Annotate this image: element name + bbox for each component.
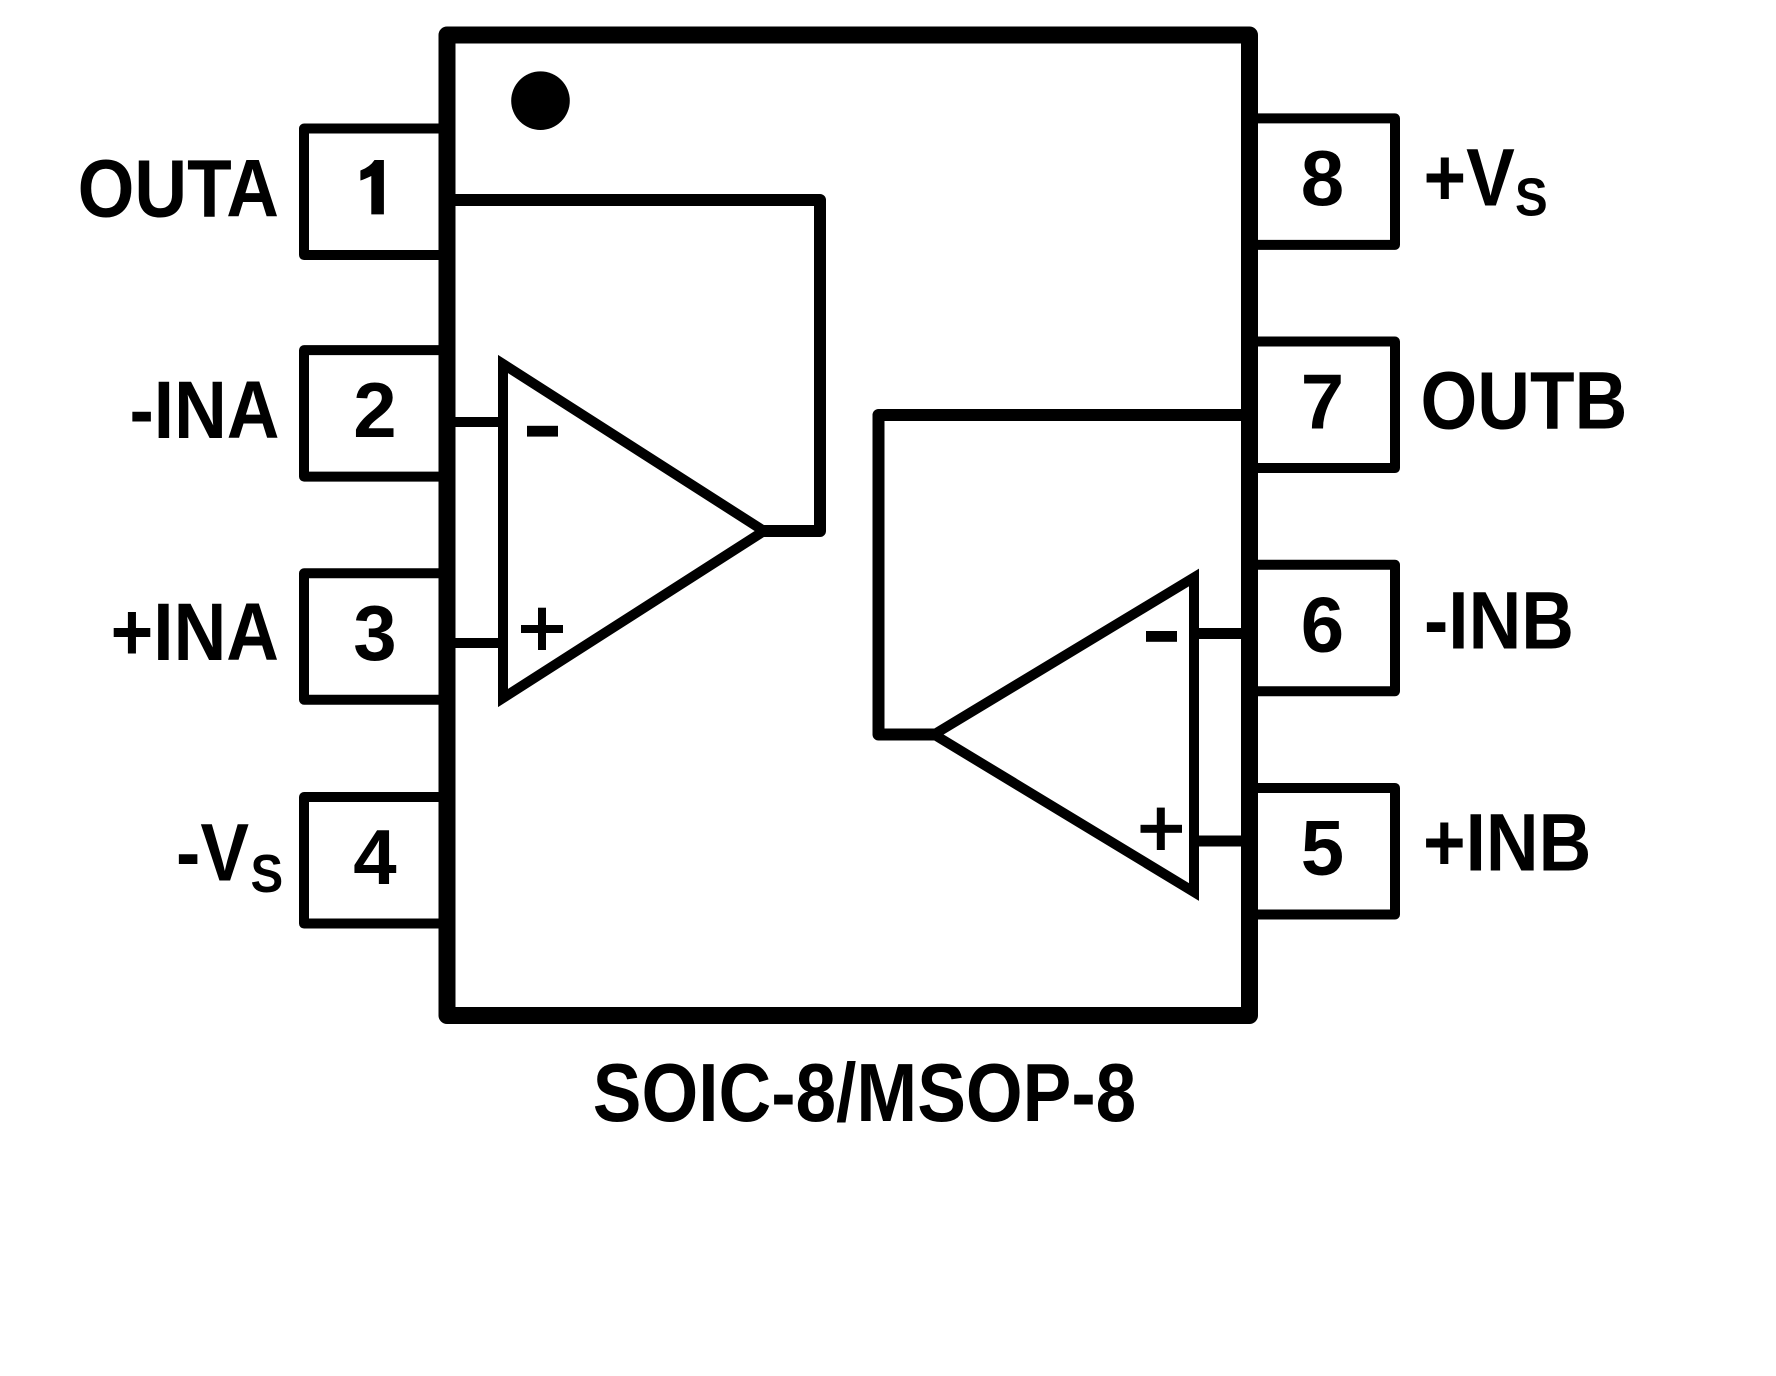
svg-text:-INB: -INB: [1424, 576, 1574, 667]
svg-text:2: 2: [353, 366, 396, 454]
svg-text:4: 4: [353, 813, 396, 901]
svg-text:+V: +V: [1424, 133, 1516, 224]
svg-text:6: 6: [1301, 581, 1344, 669]
svg-text:-V: -V: [176, 808, 249, 899]
svg-text:3: 3: [353, 589, 396, 677]
svg-text:7: 7: [1301, 357, 1344, 445]
svg-text:5: 5: [1301, 804, 1344, 892]
svg-text:SOIC-8/MSOP-8: SOIC-8/MSOP-8: [593, 1046, 1136, 1139]
svg-text:S: S: [1515, 166, 1548, 227]
svg-text:-INA: -INA: [129, 365, 279, 456]
svg-text:OUTB: OUTB: [1421, 356, 1628, 447]
svg-text:S: S: [251, 843, 284, 904]
svg-text:OUTA: OUTA: [78, 144, 279, 235]
svg-text:+INB: +INB: [1423, 798, 1591, 889]
svg-text:+INA: +INA: [111, 587, 279, 678]
svg-text:8: 8: [1301, 134, 1344, 222]
